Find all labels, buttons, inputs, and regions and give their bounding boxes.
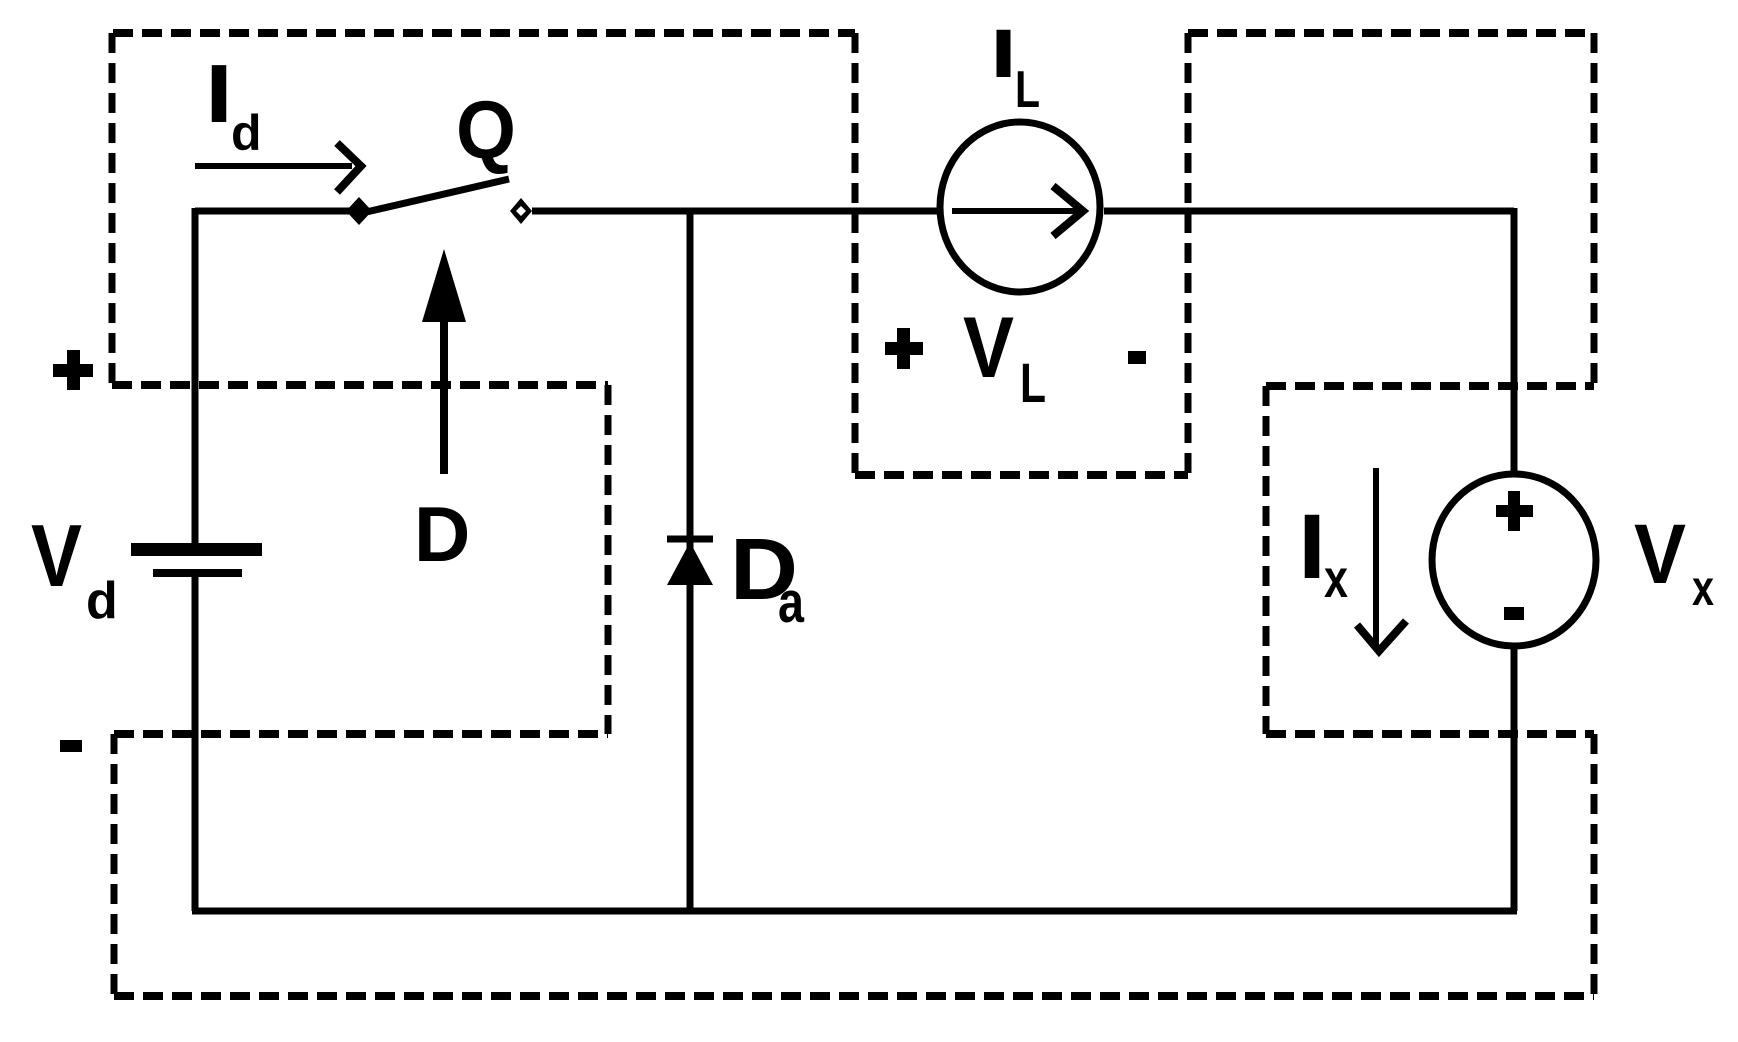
- svg-text:d: d: [231, 105, 262, 161]
- svg-text:x: x: [1324, 549, 1348, 609]
- svg-text:Q: Q: [456, 85, 516, 176]
- svg-text:I: I: [990, 15, 1017, 92]
- svg-text:x: x: [1692, 560, 1714, 616]
- svg-text:I: I: [1298, 496, 1326, 598]
- svg-text:V: V: [963, 300, 1014, 396]
- svg-text:D: D: [414, 490, 470, 578]
- svg-text:V: V: [31, 506, 82, 605]
- svg-text:I: I: [205, 47, 233, 140]
- svg-text:d: d: [86, 572, 118, 630]
- svg-text:V: V: [1634, 507, 1686, 601]
- svg-text:L: L: [1015, 61, 1040, 119]
- svg-text:L: L: [1020, 351, 1046, 414]
- svg-text:a: a: [778, 570, 805, 635]
